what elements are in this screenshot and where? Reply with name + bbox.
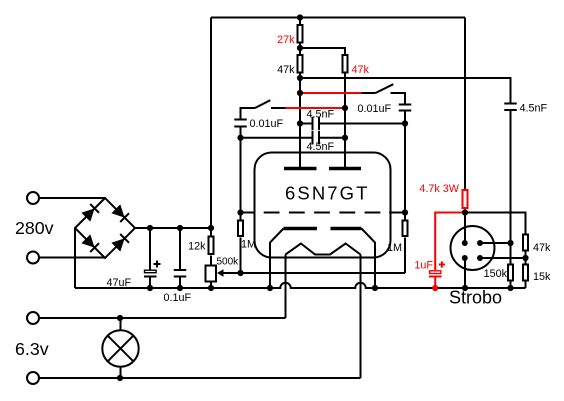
- diode D3 bottom-left: [81, 234, 99, 252]
- node plate1 output: [297, 75, 303, 81]
- node gnd 0.1uF: [177, 285, 183, 291]
- capacitor C3 0.01uF right: [399, 105, 412, 213]
- svg-text:0.01uF: 0.01uF: [358, 103, 392, 115]
- wire top rail: [211, 17, 465, 19]
- svg-text:280v: 280v: [15, 218, 54, 238]
- wire grid-bias line: [241, 272, 406, 274]
- capacitor C4 0.01uF left: [234, 120, 247, 213]
- node grid2 caps: [402, 120, 408, 126]
- heater filament: [286, 244, 361, 255]
- cathode bar right: [331, 227, 362, 231]
- node lamp bottom: [117, 375, 123, 381]
- connector J1 strobo: [451, 226, 495, 270]
- pin 2: [477, 240, 483, 246]
- terminal 6.3v bottom: [27, 372, 39, 384]
- wire bridge + output: [135, 227, 211, 229]
- node B+ 47uF: [147, 225, 153, 231]
- wire plate1 to right output: [300, 78, 511, 104]
- node wiper / 1M: [237, 270, 243, 276]
- wire terminal T2 to bridge: [39, 257, 105, 259]
- node gnd connector: [462, 285, 468, 291]
- wire red B left switch to plate2: [286, 107, 346, 109]
- capacitor C1 47uF: [144, 228, 161, 288]
- svg-text:47k: 47k: [533, 242, 551, 254]
- wire 4.7k feed: [464, 18, 466, 190]
- svg-text:4.5nF: 4.5nF: [307, 109, 335, 121]
- plate bar left: [284, 167, 317, 171]
- lamp P1: [102, 318, 138, 378]
- svg-text:150k: 150k: [484, 268, 508, 280]
- diode D4 bottom-right: [111, 234, 129, 252]
- svg-text:500k: 500k: [217, 257, 240, 268]
- wire terminal T1 to bridge: [39, 197, 105, 199]
- node plate1 red A: [297, 90, 303, 96]
- node gnd 1uF red: [432, 285, 438, 291]
- resistor R9 47k output: [523, 235, 528, 264]
- resistor R4 27k: [298, 18, 303, 49]
- cathode lead left: [270, 229, 284, 289]
- node B+ 0.1uF: [177, 225, 183, 231]
- tube U1 6SN7GT envelope: [255, 153, 391, 258]
- grid dashed line: [241, 212, 406, 214]
- node plate2 lower cap: [342, 135, 348, 141]
- capacitor C5 4.5nF upper: [300, 117, 405, 131]
- capacitor C6 4.5nF lower: [241, 131, 346, 145]
- diode D1 top-left: [81, 204, 99, 222]
- node gnd 47uF: [147, 285, 153, 291]
- svg-text:6SN7GT: 6SN7GT: [285, 183, 370, 204]
- wire pin2 to 150k node: [480, 242, 511, 244]
- svg-text:6.3v: 6.3v: [15, 339, 49, 359]
- svg-text:0.1uF: 0.1uF: [164, 292, 192, 304]
- svg-text:0.01uF: 0.01uF: [250, 118, 284, 130]
- svg-text:27k: 27k: [277, 34, 295, 46]
- wire red C to 1uF: [435, 213, 465, 271]
- diode D2 top-right: [111, 204, 129, 222]
- node gnd 150k: [507, 285, 513, 291]
- node grid1: [237, 209, 243, 215]
- wire heater bottom: [39, 377, 361, 379]
- switch S2 right: [362, 84, 406, 104]
- svg-text:15k: 15k: [533, 271, 551, 283]
- wire heater top: [39, 317, 286, 319]
- node B+ 12k: [208, 225, 214, 231]
- terminal 6.3v top: [27, 312, 39, 324]
- heater lead right: [360, 255, 362, 379]
- resistor R1 12k: [209, 228, 214, 265]
- heater lead left: [285, 255, 287, 319]
- node plate2 red B: [342, 105, 348, 111]
- node gnd cathode1: [267, 285, 273, 291]
- svg-text:4.7k 3W: 4.7k 3W: [419, 183, 459, 195]
- node grid2: [402, 209, 408, 215]
- svg-text:1uF: 1uF: [414, 260, 433, 272]
- plate bar right: [329, 167, 361, 171]
- resistor R5 47k left: [298, 48, 303, 169]
- node gnd cathode2: [372, 285, 378, 291]
- wire pin1 feed: [464, 213, 466, 243]
- terminal 280v bottom: [27, 252, 39, 264]
- capacitor C7 4.5nF right: [504, 104, 517, 264]
- wire bridge - drop: [74, 228, 76, 288]
- capacitor C8 1uF red: [429, 261, 445, 288]
- wire 47k interconnect: [300, 48, 345, 54]
- cathode lead right: [362, 229, 376, 289]
- bridge rectifier diamond: [75, 198, 135, 258]
- wire red A plate1 to right switch: [300, 92, 362, 94]
- resistor R8 4.7k 3W red: [463, 190, 468, 213]
- wire node A to 47k chain: [465, 213, 526, 234]
- node 27k / 47k: [297, 45, 303, 51]
- pin 4: [477, 255, 483, 261]
- svg-text:47uF: 47uF: [107, 277, 132, 289]
- pin 1: [462, 240, 468, 246]
- node lamp top: [117, 315, 123, 321]
- capacitor C2 0.1uF: [174, 228, 187, 288]
- potentiometer 500k: [206, 266, 241, 289]
- node grid1 caps: [237, 135, 243, 141]
- ground rail with hops: [75, 283, 526, 288]
- svg-text:4.5nF: 4.5nF: [307, 141, 335, 153]
- resistor R7 150k: [508, 265, 513, 289]
- node top rail / 27k: [297, 14, 303, 20]
- resistor R10 15k: [523, 265, 528, 289]
- resistor R3 1M right: [403, 213, 408, 274]
- pin 3: [462, 255, 468, 261]
- wire B+ riser: [210, 18, 212, 229]
- cathode bar left: [284, 227, 318, 231]
- svg-text:47k: 47k: [352, 64, 370, 76]
- resistor R2 1M left: [238, 213, 243, 274]
- node gnd pot: [208, 285, 214, 291]
- svg-text:47k: 47k: [277, 64, 295, 76]
- wire pin4 to divider: [480, 257, 526, 259]
- terminal 280v top: [27, 192, 39, 204]
- resistor R6 47k right: [343, 55, 348, 169]
- svg-text:12k: 12k: [188, 241, 206, 253]
- switch S1 left: [241, 100, 286, 119]
- node 150k top: [507, 240, 513, 246]
- svg-text:4.5nF: 4.5nF: [520, 103, 548, 115]
- node divider mid: [522, 255, 528, 261]
- node plate1 upper cap: [297, 120, 303, 126]
- wire pin3 to ground: [464, 258, 466, 288]
- svg-text:Strobo: Strobo: [449, 288, 502, 308]
- node A below 4.7k: [462, 209, 468, 215]
